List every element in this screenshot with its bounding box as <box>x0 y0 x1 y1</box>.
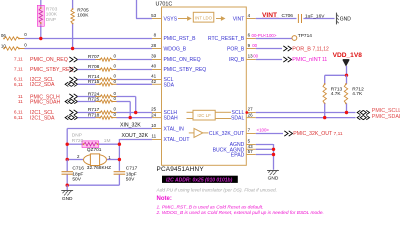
svg-text:2. WDOG_B is used as Cold Rese: 2. WDOG_B is used as Cold Reset, externa… <box>156 210 324 216</box>
wire I2C1_SDA to pin <box>117 117 153 119</box>
note line 1 <box>157 205 264 211</box>
svg-text:XTAL_OUT: XTAL_OUT <box>164 137 190 143</box>
note header <box>157 196 172 202</box>
crystal QZ701 32.768KHZ <box>67 147 119 171</box>
op-amp U1 PMIC U701C body <box>156 1 247 173</box>
ground symbol crystal <box>61 185 73 202</box>
svg-text:SDA: SDA <box>164 82 175 88</box>
I2C level translator internal block <box>187 110 232 120</box>
wire AGND row <box>256 144 274 170</box>
wire VDD_1V8 to resistors <box>325 66 348 77</box>
wire WDOG_B row to pin 28 <box>19 48 152 50</box>
svg-text:11: 11 <box>152 134 157 139</box>
svg-text:11: 11 <box>322 57 327 63</box>
svg-text:7,11: 7,11 <box>14 57 23 63</box>
svg-text:VDD_1V8: VDD_1V8 <box>333 52 363 59</box>
svg-text:1uF_16V: 1uF_16V <box>305 14 325 20</box>
svg-text:26: 26 <box>248 112 254 117</box>
INT LDO internal block <box>178 12 224 22</box>
wire XIN_32K <box>67 122 152 159</box>
svg-text:I2C ADDR: 0x25 (010 0101b): I2C ADDR: 0x25 (010 0101b) <box>166 177 233 183</box>
U701C left pin stubs <box>152 19 162 140</box>
svg-text:Add PU if using level translat: Add PU if using level translator (per DS… <box>156 187 278 193</box>
wire CLK_32K_OUT row <box>256 128 283 134</box>
svg-text:R720: R720 <box>72 138 84 144</box>
svg-text:I2C2_SDA: I2C2_SDA <box>30 82 55 88</box>
svg-text:24: 24 <box>151 112 157 117</box>
svg-text:XIN_32K: XIN_32K <box>120 122 141 128</box>
svg-text:C706: C706 <box>282 13 294 19</box>
offpage PMIC_32K_OUT <box>284 131 343 137</box>
resistor R710 (0 ohm) <box>1 43 27 51</box>
svg-text:XOUT_32K: XOUT_32K <box>122 133 149 139</box>
svg-text:R707: R707 <box>88 54 100 60</box>
resistor R712 4.7K <box>344 75 364 112</box>
power net VDD_1V8 <box>333 52 363 66</box>
offpage PMIC_SDAL <box>357 114 400 120</box>
svg-text:GND: GND <box>62 196 73 202</box>
net I2C2_SCL row <box>14 77 96 83</box>
wire PMIC_SCLH to pin <box>117 96 136 98</box>
svg-text:I2C1_SDA: I2C1_SDA <box>30 115 55 121</box>
svg-text:SDAL: SDAL <box>231 116 244 122</box>
net PMIC_ON_REQ row <box>14 57 96 63</box>
svg-text:PMIC_RST_B: PMIC_RST_B <box>164 36 197 42</box>
svg-text:GND: GND <box>268 176 279 182</box>
svg-text:DNP: DNP <box>72 133 82 139</box>
svg-text:PMIC_ON_REQ: PMIC_ON_REQ <box>30 57 68 63</box>
wire SCLL row <box>245 111 355 114</box>
resistor R705 <box>71 0 89 49</box>
capacitor C717 18pF 50V <box>114 165 138 185</box>
svg-text:25: 25 <box>151 107 157 112</box>
offpage PMIC_nINT <box>283 57 327 63</box>
svg-text:R708: R708 <box>88 64 100 70</box>
svg-text:00: 00 <box>253 54 258 59</box>
svg-text:VINT: VINT <box>233 17 245 23</box>
wire IRQ_B row <box>253 54 282 60</box>
svg-text:00-PU<100>: 00-PU<100> <box>252 33 277 38</box>
svg-text:PMIC_32K_OUT: PMIC_32K_OUT <box>293 131 333 137</box>
svg-text:GND: GND <box>340 17 352 23</box>
svg-text:27: 27 <box>248 107 254 112</box>
net I2C2_SDA row <box>14 82 96 88</box>
svg-text:100K: 100K <box>46 12 58 18</box>
wire PMIC_RST_B row to pin 8 <box>19 38 152 40</box>
resistor R703 (DNP, highlighted) <box>37 0 58 38</box>
svg-text:7,11: 7,11 <box>334 131 343 137</box>
svg-text:C717: C717 <box>126 165 138 171</box>
test point TP714 <box>292 33 312 41</box>
svg-text:SDAH: SDAH <box>164 116 178 122</box>
svg-text:U701C: U701C <box>156 1 173 7</box>
U701C left pin numbers <box>151 13 157 139</box>
resistor R724 (0 ohm) <box>88 91 117 98</box>
svg-text:7,11: 7,11 <box>14 67 23 73</box>
wire SDAL row <box>256 116 356 119</box>
svg-text:VSYS: VSYS <box>164 17 178 23</box>
svg-text:R703: R703 <box>46 6 58 12</box>
ground symbol AGND <box>267 170 279 182</box>
wire PMIC_STBY_REQ to pin <box>117 69 153 71</box>
wire I2C1_SCL to pin <box>117 112 153 114</box>
resistor R717 (0 ohm) <box>88 107 117 115</box>
svg-text:R717: R717 <box>88 107 100 113</box>
junction R720 left <box>66 143 69 146</box>
svg-text:PMIC_nINT: PMIC_nINT <box>292 57 321 63</box>
resistor R725 (0 ohm) <box>88 96 117 103</box>
svg-text:4.7K: 4.7K <box>352 91 363 97</box>
svg-text:4.7K: 4.7K <box>331 91 342 97</box>
svg-text:6,11: 6,11 <box>14 82 23 88</box>
svg-text:10: 10 <box>151 123 157 128</box>
svg-text:57: 57 <box>248 149 254 154</box>
resistor R720 (1M DNP, highlighted) <box>67 133 119 148</box>
svg-text:R714: R714 <box>88 74 100 80</box>
svg-text:I2C LF: I2C LF <box>197 113 211 118</box>
U701C right pin numbers <box>248 13 254 154</box>
internal oscillator inverter <box>189 128 209 137</box>
note add PU <box>156 187 278 193</box>
U701C right pin names <box>208 17 245 159</box>
wire PMIC_SCLH jog down <box>134 97 137 115</box>
resistor R708 (0 ohm) <box>88 64 117 72</box>
net PMIC_SCLH row <box>18 94 96 100</box>
wire POR_B row <box>252 43 282 48</box>
svg-text:CLK_32K_OUT: CLK_32K_OUT <box>209 131 244 137</box>
power net VINT <box>262 12 279 19</box>
svg-text:7,11,12: 7,11,12 <box>313 47 330 53</box>
net I2C1_SCL row <box>14 110 96 116</box>
svg-text:PMIC_STBY_REQ: PMIC_STBY_REQ <box>30 67 74 73</box>
svg-text:INT LDO: INT LDO <box>195 15 213 20</box>
wire PMIC_SDAH jog down <box>129 102 132 120</box>
svg-text:C716: C716 <box>72 165 84 171</box>
wire XOUT_32K <box>119 133 152 171</box>
svg-text:39: 39 <box>151 54 157 59</box>
junction crystal right <box>118 158 121 161</box>
svg-text:POR_B: POR_B <box>227 47 245 53</box>
wire PMIC_SDAH to pin <box>117 101 131 103</box>
svg-text:WDOG_B: WDOG_B <box>164 47 187 53</box>
resistor R715 (0 ohm) <box>88 79 117 86</box>
svg-text:POR_B: POR_B <box>292 47 311 53</box>
svg-text:6,11: 6,11 <box>14 77 23 83</box>
junction R703/row <box>39 37 42 40</box>
svg-text:PMIC_SDAH: PMIC_SDAH <box>30 99 61 105</box>
junction R705/row <box>71 47 74 50</box>
ground symbol VINT (rotated) <box>336 13 351 25</box>
I2C address banner <box>162 176 238 184</box>
note line 2 <box>156 210 324 216</box>
net PMIC_SDAH row <box>18 99 96 105</box>
wire I2C2_SDA to pin <box>117 83 153 85</box>
svg-text:XTAL_IN: XTAL_IN <box>164 127 185 133</box>
resistor R707 (0 ohm) <box>88 54 117 62</box>
wire ground rail <box>66 184 120 187</box>
svg-text:PCA9451AHNY: PCA9451AHNY <box>157 166 205 173</box>
svg-text:50V: 50V <box>126 176 135 182</box>
svg-text:DNP: DNP <box>46 17 56 23</box>
wire BUCK_AGND row <box>256 148 275 151</box>
svg-text:100K: 100K <box>77 12 89 18</box>
U701C right pin stubs <box>246 19 256 155</box>
svg-text:6,11: 6,11 <box>14 115 23 121</box>
resistor R718 (0 ohm) <box>88 112 117 119</box>
wire VSYS from top <box>136 0 152 19</box>
svg-text:QZ701: QZ701 <box>87 147 102 153</box>
offpage PMIC_SCLL <box>357 108 400 114</box>
wire RTC_RESET_B to TP714 <box>252 33 293 39</box>
net PMIC_STBY_REQ row <box>14 67 96 73</box>
junction R720 right <box>118 143 121 146</box>
svg-text:PMIC_STBY_REQ: PMIC_STBY_REQ <box>164 67 207 73</box>
wire EPAD row <box>256 153 275 156</box>
svg-text:EPAD: EPAD <box>231 153 245 159</box>
U701C left pin names <box>164 17 207 144</box>
offpage POR_B <box>283 46 329 53</box>
svg-text:50V: 50V <box>72 176 81 182</box>
svg-text:1M: 1M <box>104 138 111 144</box>
resistor R714 (0 ohm) <box>88 74 117 82</box>
wire PMIC_ON_REQ to pin <box>117 59 153 61</box>
wire VINT row <box>256 18 335 20</box>
svg-text:00: 00 <box>252 43 257 48</box>
svg-text:PMIC_SDAL: PMIC_SDAL <box>372 114 400 120</box>
svg-text:Note:: Note: <box>157 196 172 202</box>
svg-text:PMIC_ON_REQ: PMIC_ON_REQ <box>164 57 201 63</box>
svg-text:IRQ_B: IRQ_B <box>229 57 245 63</box>
svg-text:<100>: <100> <box>257 128 270 133</box>
net I2C1_SDA row <box>14 115 96 121</box>
svg-text:11: 11 <box>18 99 23 105</box>
junction crystal left <box>66 158 69 161</box>
resistor R706 (0 ohm) <box>1 32 27 40</box>
capacitor C716 18pF 50V <box>62 160 85 186</box>
resistor R713 4.7K <box>323 75 342 117</box>
svg-text:6,11: 6,11 <box>14 110 23 116</box>
capacitor C706 1uF 16V <box>282 13 326 23</box>
svg-text:32.768KHZ: 32.768KHZ <box>87 165 111 171</box>
svg-text:28: 28 <box>151 43 157 48</box>
svg-text:1. PMIC_RST_B is used as Cold: 1. PMIC_RST_B is used as Cold Reset as d… <box>157 205 264 211</box>
svg-text:TP714: TP714 <box>298 33 312 39</box>
svg-text:41: 41 <box>151 74 157 79</box>
svg-text:53: 53 <box>151 13 157 18</box>
wire I2C2_SCL to pin <box>117 79 153 81</box>
svg-text:RTC_RESET_B: RTC_RESET_B <box>208 36 245 42</box>
svg-text:40: 40 <box>151 64 157 69</box>
